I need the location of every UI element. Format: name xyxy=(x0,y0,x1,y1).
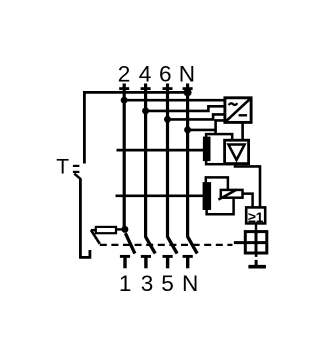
wire OR gate to trip coil xyxy=(255,223,257,231)
svg-text:≥1: ≥1 xyxy=(248,209,264,225)
pole conductor 2 (vertical) xyxy=(123,84,126,232)
secondary winding loop 1 xyxy=(206,134,232,164)
switch contact lever pole 3 xyxy=(146,237,156,254)
junction dot poleN/LN xyxy=(184,126,191,133)
pole conductor 6 (vertical) xyxy=(166,84,169,238)
wire resistor right lead xyxy=(116,228,125,230)
wire trip coil bottom stub xyxy=(255,253,258,257)
OR gate box xyxy=(246,207,265,225)
terminal mark N top xyxy=(183,87,193,90)
power supply unit box (AC/DC) xyxy=(225,98,251,123)
wire LN from pole N to power supply and winding xyxy=(188,129,216,132)
junction dot pole2 contact xyxy=(121,226,128,233)
wire L2 from pole 4 to power supply xyxy=(146,106,225,111)
svg-text:5: 5 xyxy=(161,271,174,296)
CT core bar 2 xyxy=(203,182,212,210)
wire supply to amplifier xyxy=(241,122,244,140)
amplifier box xyxy=(225,140,249,163)
mechanical linkage dashed line xyxy=(100,244,233,246)
terminal mark 2 xyxy=(119,87,129,90)
junction dot pole4/L2 xyxy=(142,107,149,114)
terminal mark 4 xyxy=(141,87,151,90)
svg-text:6: 6 xyxy=(159,62,172,87)
terminal mark 5 bottom xyxy=(163,256,173,268)
wire top bus from test branch to N xyxy=(83,91,188,94)
terminal mark 6 xyxy=(163,87,173,90)
trip coil quadrant box xyxy=(234,232,267,253)
current transformer primary line 2 xyxy=(116,194,205,197)
earth terminal below trip coil xyxy=(248,260,266,267)
wire amplifier to OR gate xyxy=(235,164,260,208)
junction dot N top bus xyxy=(184,88,192,96)
svg-text:N: N xyxy=(179,62,195,87)
test contact lever xyxy=(91,230,100,244)
wire L1 from pole 2 to power supply xyxy=(124,99,225,102)
terminal mark 3 bottom xyxy=(141,256,151,268)
svg-text:T: T xyxy=(56,155,69,178)
wire resistor left lead xyxy=(91,229,96,231)
junction dot pole2/L1 xyxy=(121,97,128,104)
switch contact lever pole 5 xyxy=(168,237,178,254)
svg-text:2: 2 xyxy=(118,62,131,87)
junction dot pole6/L3 xyxy=(164,116,171,123)
test button contact tick upper xyxy=(73,165,80,167)
test resistor xyxy=(96,227,116,233)
secondary winding loop 2 lower wire xyxy=(207,198,234,215)
CT core bar 1 xyxy=(203,137,211,162)
terminal mark 1 bottom xyxy=(120,256,130,268)
terminal mark N bottom xyxy=(183,256,193,268)
wire L3 from pole 6 to power supply xyxy=(168,114,225,119)
switch contact lever pole 1 xyxy=(125,233,134,253)
svg-text:3: 3 xyxy=(141,271,154,296)
wire test branch vertical lower with hook xyxy=(80,179,90,258)
switch contact lever pole N xyxy=(188,237,197,254)
test button actuator lever xyxy=(74,174,81,180)
trip relay box xyxy=(221,190,243,198)
svg-text:N: N xyxy=(182,271,198,296)
trip relay diagonal stroke xyxy=(218,189,237,199)
wire N riser to supply corner xyxy=(216,120,226,134)
svg-text:1: 1 xyxy=(119,271,132,296)
current transformer primary line 1 xyxy=(117,149,205,152)
pole conductor 4 (vertical) xyxy=(144,84,147,238)
secondary winding loop 2 upper wire xyxy=(206,177,228,190)
svg-text:4: 4 xyxy=(139,62,152,87)
wire relay to OR gate xyxy=(243,194,253,208)
wire test branch vertical upper xyxy=(83,92,86,163)
test button contact tick lower xyxy=(73,171,80,173)
pole conductor N (vertical) xyxy=(186,84,189,238)
